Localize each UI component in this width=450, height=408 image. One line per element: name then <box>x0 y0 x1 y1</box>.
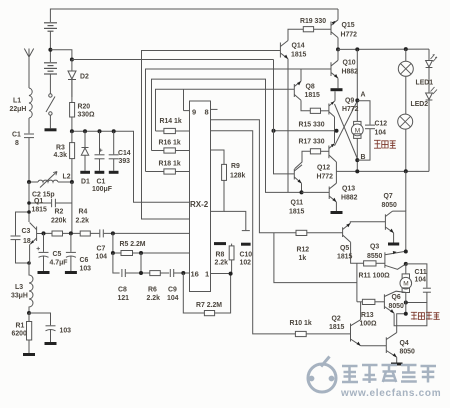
ground Q7 <box>388 243 399 246</box>
resistor R2 <box>52 231 63 236</box>
capacitor C9 <box>170 269 173 277</box>
node L3 bottom <box>27 311 31 315</box>
node rail a <box>70 129 74 133</box>
pin 9 stub <box>184 110 190 112</box>
wire R18 net riser to Q10 base <box>146 69 332 172</box>
wire Q8 collector to Q10 base line <box>300 69 302 81</box>
svg-text:220k: 220k <box>51 218 66 225</box>
node pin1 <box>229 272 233 276</box>
node R5 left <box>111 251 115 255</box>
wire R16 net riser <box>152 79 302 192</box>
wire R17 to Q12 base <box>321 150 329 152</box>
transistor Q5 <box>343 223 351 242</box>
resistor R13 <box>357 299 385 304</box>
svg-text:Q14: Q14 <box>292 43 305 50</box>
node Q3 emitter <box>404 250 408 254</box>
resistor R5 <box>121 251 133 256</box>
svg-text:22μH: 22μH <box>10 106 27 113</box>
ground bar R8 <box>214 242 226 245</box>
wire Q6 emitter loop <box>394 303 427 326</box>
node battery tap <box>48 48 52 52</box>
wire Q12 lower to motor rail <box>335 162 337 183</box>
wire lamp feed rail <box>338 48 429 50</box>
node rail b <box>83 129 87 133</box>
svg-text:8550: 8550 <box>367 253 382 260</box>
svg-text:121: 121 <box>118 295 130 302</box>
node C8 right <box>139 271 143 275</box>
resistor R1 <box>27 313 32 353</box>
svg-text:Q6: Q6 <box>392 294 401 301</box>
svg-text:100Ω: 100Ω <box>360 321 377 328</box>
wire R17 from Q11 collector <box>295 151 311 169</box>
svg-text:R13: R13 <box>361 312 374 319</box>
wire Q15 collector <box>337 38 339 50</box>
wire supply line y59 to right <box>72 59 274 61</box>
wire Q2 emitter to Q4 base <box>361 345 387 347</box>
resistor R16 <box>152 148 190 153</box>
svg-text:R2: R2 <box>55 209 64 216</box>
svg-text:R3: R3 <box>56 145 65 152</box>
resistor R3 <box>70 131 75 182</box>
svg-text:C1: C1 <box>97 178 106 185</box>
resistor R12 <box>296 230 307 235</box>
lamp LA2 <box>398 114 413 129</box>
node A <box>355 98 359 102</box>
svg-text:H772: H772 <box>341 32 358 39</box>
node C3 bottom <box>27 261 31 265</box>
svg-text:M: M <box>355 127 360 134</box>
ground Q4 <box>391 363 403 366</box>
node R5 right <box>139 251 143 255</box>
ground C6 <box>65 271 77 274</box>
svg-text:Q3: Q3 <box>370 244 379 251</box>
node row C7 right <box>111 231 115 235</box>
resistor R11 <box>364 261 376 266</box>
wire pin9 riser <box>183 89 185 110</box>
resistor R18 <box>146 169 190 174</box>
wire C8 row <box>113 253 190 273</box>
text labels part1 <box>10 74 253 338</box>
svg-text:1k: 1k <box>299 255 307 262</box>
svg-text:1815: 1815 <box>337 254 352 261</box>
wire Q14 net <box>142 51 281 220</box>
svg-text:R10 1k: R10 1k <box>290 320 312 327</box>
wire R5 to C8 link <box>140 253 142 273</box>
wire bridge X1 Q9 to B <box>335 104 358 159</box>
wire R15 to Q9 base <box>321 110 329 112</box>
wire R11 R13 link <box>356 263 358 302</box>
transistor Q4 <box>386 333 396 358</box>
svg-text:104: 104 <box>375 130 387 137</box>
capacitor C6 <box>66 233 76 271</box>
capacitor C10 <box>241 231 251 245</box>
svg-text:R16 1k: R16 1k <box>159 140 181 147</box>
wire ic right route to R10 <box>211 131 296 334</box>
wire R12 to Q5 base <box>307 232 343 234</box>
node C2 left <box>27 201 31 205</box>
capacitor C7 <box>100 229 104 237</box>
wire supply drop to Q11 base <box>274 60 295 174</box>
wire right column C2 to base row <box>71 182 73 233</box>
resistor R4 <box>80 231 90 236</box>
svg-text:1815: 1815 <box>289 209 304 216</box>
svg-text:8: 8 <box>205 108 209 117</box>
svg-text:16: 16 <box>191 270 199 279</box>
svg-text:104: 104 <box>96 254 108 261</box>
svg-text:C11: C11 <box>415 269 427 276</box>
node B <box>355 158 359 162</box>
wire Q14 collector to R19 <box>288 29 303 40</box>
node rail seg left <box>272 129 276 133</box>
svg-text:C3: C3 <box>22 228 31 235</box>
svg-text:R20: R20 <box>78 104 91 111</box>
svg-text:1815: 1815 <box>329 324 344 331</box>
svg-text:Q11: Q11 <box>291 200 304 207</box>
svg-text:1: 1 <box>205 270 209 279</box>
wire Q4 collector <box>397 314 406 333</box>
motor M2 steering <box>400 264 412 314</box>
pin 8 stub <box>211 108 218 110</box>
svg-text:6200: 6200 <box>12 331 27 338</box>
wire rail segment right <box>274 130 337 132</box>
switch S <box>46 94 55 129</box>
battery B1 <box>44 23 57 31</box>
svg-text:1815: 1815 <box>305 92 320 99</box>
wire Q13 base <box>302 191 330 193</box>
svg-text:Q10: Q10 <box>343 60 356 67</box>
transistor Q9 <box>329 91 335 117</box>
label main motor chinese <box>374 140 396 148</box>
resistor R7 <box>204 311 214 316</box>
LED1 <box>426 55 437 68</box>
svg-text:H882: H882 <box>342 69 359 76</box>
svg-text:Q1: Q1 <box>34 198 43 205</box>
svg-text:D2: D2 <box>80 74 89 81</box>
ground 103 <box>45 342 57 345</box>
svg-text:B: B <box>361 154 366 161</box>
svg-text:2.2k: 2.2k <box>76 218 90 225</box>
ground C1 <box>95 171 105 174</box>
svg-text:Q13: Q13 <box>342 186 355 193</box>
node tank left <box>27 180 31 184</box>
motor M1 main <box>351 121 363 171</box>
svg-text:H772: H772 <box>342 106 359 113</box>
transistor Q8 <box>294 81 301 100</box>
ground Q13 <box>331 211 343 214</box>
ground R1 <box>23 353 35 356</box>
resistor R17 <box>310 149 320 154</box>
svg-text:Q4: Q4 <box>400 340 409 347</box>
transistor Q3 <box>385 251 406 269</box>
node tank right <box>70 180 74 184</box>
transistor Q11 <box>294 165 302 193</box>
svg-text:Q8: Q8 <box>306 84 315 91</box>
resistor R9 loop <box>211 150 227 211</box>
svg-text:C12: C12 <box>375 121 388 128</box>
svg-text:R6: R6 <box>148 287 157 294</box>
svg-text:104: 104 <box>167 295 179 302</box>
node base row Q1 <box>42 231 46 235</box>
wire left column upper <box>28 182 30 222</box>
svg-text:L1: L1 <box>13 98 21 105</box>
svg-text:R5 2.2M: R5 2.2M <box>120 241 146 248</box>
svg-text:R14 1k: R14 1k <box>160 118 182 125</box>
wire Q9 collector link <box>334 117 336 143</box>
svg-text:9: 9 <box>192 108 196 117</box>
capacitor C3 <box>11 212 30 263</box>
resistor R8 <box>229 244 234 274</box>
transistor Q13 <box>329 183 336 211</box>
label steering motor chinese <box>411 312 440 320</box>
wire Q7 collector to column <box>393 211 406 251</box>
wire LED link <box>428 68 430 93</box>
svg-text:C8: C8 <box>118 287 127 294</box>
svg-text:Q5: Q5 <box>340 245 349 252</box>
svg-text:Q15: Q15 <box>342 22 355 29</box>
ground bar Q10 Q9 <box>331 88 343 91</box>
svg-text:L3: L3 <box>15 284 23 291</box>
ground switch <box>45 128 57 131</box>
svg-text:4.3k: 4.3k <box>54 152 68 159</box>
wire bridge X2 Q12 to A <box>335 101 358 146</box>
transistor Q6 <box>384 291 405 313</box>
wire R7 loop left <box>183 273 204 313</box>
svg-text:C9: C9 <box>168 287 177 294</box>
svg-text:A: A <box>361 92 366 99</box>
diode D2 <box>68 60 76 98</box>
node Q11 emitter junction <box>300 190 304 194</box>
svg-text:R8: R8 <box>216 252 225 259</box>
node C11 bottom <box>404 301 408 305</box>
wire R14 net to Q8 base <box>156 89 295 131</box>
node lamp column top <box>404 47 408 51</box>
wire pin1 row <box>211 273 231 275</box>
antenna <box>24 49 33 89</box>
svg-text:R1: R1 <box>16 323 25 330</box>
resistor R20 <box>70 80 75 118</box>
wire R5 row <box>113 233 190 253</box>
svg-text:8050: 8050 <box>382 202 397 209</box>
svg-text:100μF: 100μF <box>92 186 112 193</box>
svg-text:R18 1k: R18 1k <box>159 161 181 168</box>
LED column top <box>428 49 430 60</box>
svg-text:C5: C5 <box>53 251 62 258</box>
svg-text:1815: 1815 <box>32 207 47 214</box>
wire Q5 collector to Q7 base <box>350 222 385 223</box>
node Q4 collector column <box>404 312 408 316</box>
inductor L3 <box>29 263 33 313</box>
svg-text:Q12: Q12 <box>317 165 330 172</box>
capacitor C2 <box>29 199 72 207</box>
wire R10 to Q2 base <box>306 333 350 335</box>
svg-text:R19 330: R19 330 <box>300 18 326 25</box>
capacitor C14 <box>109 131 119 171</box>
capacitor C11 bracket <box>406 264 431 303</box>
capacitor C8 <box>122 269 125 277</box>
wire A column <box>356 49 358 121</box>
wire Q7 emitter <box>393 233 395 243</box>
wire pin8 route to R12 <box>211 120 297 233</box>
IC pin numbers <box>190 108 209 279</box>
wire right column main <box>405 171 407 211</box>
node C3 top <box>27 210 31 214</box>
wire C10 stem <box>224 211 246 230</box>
svg-text:LED2: LED2 <box>411 101 429 108</box>
wire Q2 collector riser <box>360 302 362 320</box>
wire C1 down <box>28 138 30 182</box>
text labels part2 <box>289 18 433 356</box>
svg-text:R15 330: R15 330 <box>299 122 325 129</box>
svg-text:103: 103 <box>60 328 72 335</box>
capacitor C1 <box>24 134 34 138</box>
wire Q15 emitter to top rail <box>337 9 339 20</box>
svg-text:R17 330: R17 330 <box>299 139 325 146</box>
svg-text:4.7μF: 4.7μF <box>50 260 68 267</box>
wire tank row <box>29 181 72 183</box>
svg-text:LED1: LED1 <box>416 80 434 87</box>
wire ic drive line lower <box>274 233 357 283</box>
node rail c <box>98 129 102 133</box>
resistor R10 <box>295 331 306 336</box>
wire R7 loop right <box>215 274 231 313</box>
wire R19 to Q15 base <box>314 28 331 30</box>
LED2 <box>426 87 437 100</box>
wire R11 to Q3 base <box>376 262 385 264</box>
transistor Q7 <box>385 211 393 233</box>
resistor R6 <box>150 271 161 276</box>
capacitor bypass 103 <box>29 313 56 342</box>
capacitor C12 bracket <box>357 101 375 160</box>
capacitor C1 electrolytic <box>95 131 105 171</box>
svg-text:Q2: Q2 <box>332 316 341 323</box>
svg-text:R9: R9 <box>231 163 240 170</box>
svg-text:C10: C10 <box>240 252 253 259</box>
svg-text:330Ω: 330Ω <box>78 112 95 119</box>
battery B2 <box>44 63 57 74</box>
lamp column <box>405 49 407 171</box>
resistor R19 <box>303 27 313 32</box>
lamp LA1 <box>398 61 413 76</box>
ground C14 <box>109 171 119 174</box>
svg-text:Q9: Q9 <box>345 98 354 105</box>
node D2 top <box>70 58 74 62</box>
diode D1 <box>81 131 88 171</box>
wire battery junction <box>49 31 51 62</box>
svg-text:C6: C6 <box>80 257 89 264</box>
svg-text:8050: 8050 <box>400 349 415 356</box>
wire top supply rail <box>50 9 338 22</box>
svg-text:8: 8 <box>15 140 19 147</box>
transistor Q2 <box>351 320 361 346</box>
svg-text:R12: R12 <box>297 247 310 254</box>
svg-text:103: 103 <box>80 266 92 273</box>
watermark logo <box>308 357 336 393</box>
svg-text:8050: 8050 <box>389 303 404 310</box>
inductor L2 <box>38 172 58 188</box>
node row C6 <box>69 231 73 235</box>
ground D1 <box>80 171 90 174</box>
wire main rail left <box>72 131 190 202</box>
svg-text:www.elecfans.com: www.elecfans.com <box>340 388 441 399</box>
svg-text:33μH: 33μH <box>11 293 28 300</box>
svg-text:M: M <box>403 281 408 288</box>
svg-text:L2: L2 <box>63 174 71 181</box>
capacitor C5 <box>37 233 49 271</box>
wire battery to switch <box>49 74 51 94</box>
node pin16 branch <box>181 271 185 275</box>
transistor Q15 <box>331 20 338 38</box>
svg-text:104: 104 <box>415 277 427 284</box>
node A column top <box>355 47 359 51</box>
svg-text:R4: R4 <box>79 209 88 216</box>
wire Q5 emitter drop <box>351 242 364 263</box>
wire to D2 branch <box>50 50 72 60</box>
transistor Q12 <box>329 144 337 163</box>
svg-text:C7: C7 <box>97 246 106 253</box>
svg-text:R7 2.2M: R7 2.2M <box>196 302 222 309</box>
svg-text:C1: C1 <box>12 132 21 139</box>
transistor Q1 <box>30 223 44 264</box>
node motor2 top <box>404 262 408 266</box>
svg-text:H882: H882 <box>341 195 358 202</box>
svg-text:RX-2: RX-2 <box>190 200 209 209</box>
node lamp bottom <box>404 169 408 173</box>
svg-text:2.2k: 2.2k <box>215 260 229 267</box>
node rail seg right <box>335 129 339 133</box>
wire motor bottom rail <box>336 170 429 172</box>
svg-text:H772: H772 <box>317 174 334 181</box>
watermark text dianzifashaoyou <box>342 365 436 383</box>
inductor L1 <box>29 88 32 118</box>
resistor R15 <box>310 108 320 113</box>
svg-text:393: 393 <box>119 158 131 165</box>
transistor Q14 <box>280 41 288 59</box>
svg-text:D1: D1 <box>81 178 90 185</box>
wire base row y233 <box>44 232 190 234</box>
svg-text:128k: 128k <box>230 173 245 180</box>
resistor R14 <box>156 128 190 133</box>
svg-text:C14: C14 <box>118 150 131 157</box>
wire Q14 emitter drop <box>287 59 289 193</box>
svg-text:102: 102 <box>240 260 252 267</box>
svg-text:2.2k: 2.2k <box>147 295 161 302</box>
transistor Q10 <box>331 49 338 88</box>
node rail d <box>112 129 116 133</box>
IC RX-2 <box>190 101 211 292</box>
node B rail <box>355 169 359 173</box>
svg-text:Q7: Q7 <box>384 193 393 200</box>
wire L1 to C1 <box>28 118 30 133</box>
ground C5 <box>38 271 50 274</box>
wire Q4 emitter <box>396 357 398 362</box>
node Q15 Q10 junction <box>336 47 340 51</box>
svg-text:R11 100Ω: R11 100Ω <box>359 273 391 280</box>
wire LED column bottom <box>428 100 430 171</box>
svg-text:18: 18 <box>23 238 31 245</box>
wire Q8 emitter to R15 <box>301 100 310 111</box>
svg-text:1815: 1815 <box>291 52 306 59</box>
wire R20 to rail <box>71 117 73 131</box>
